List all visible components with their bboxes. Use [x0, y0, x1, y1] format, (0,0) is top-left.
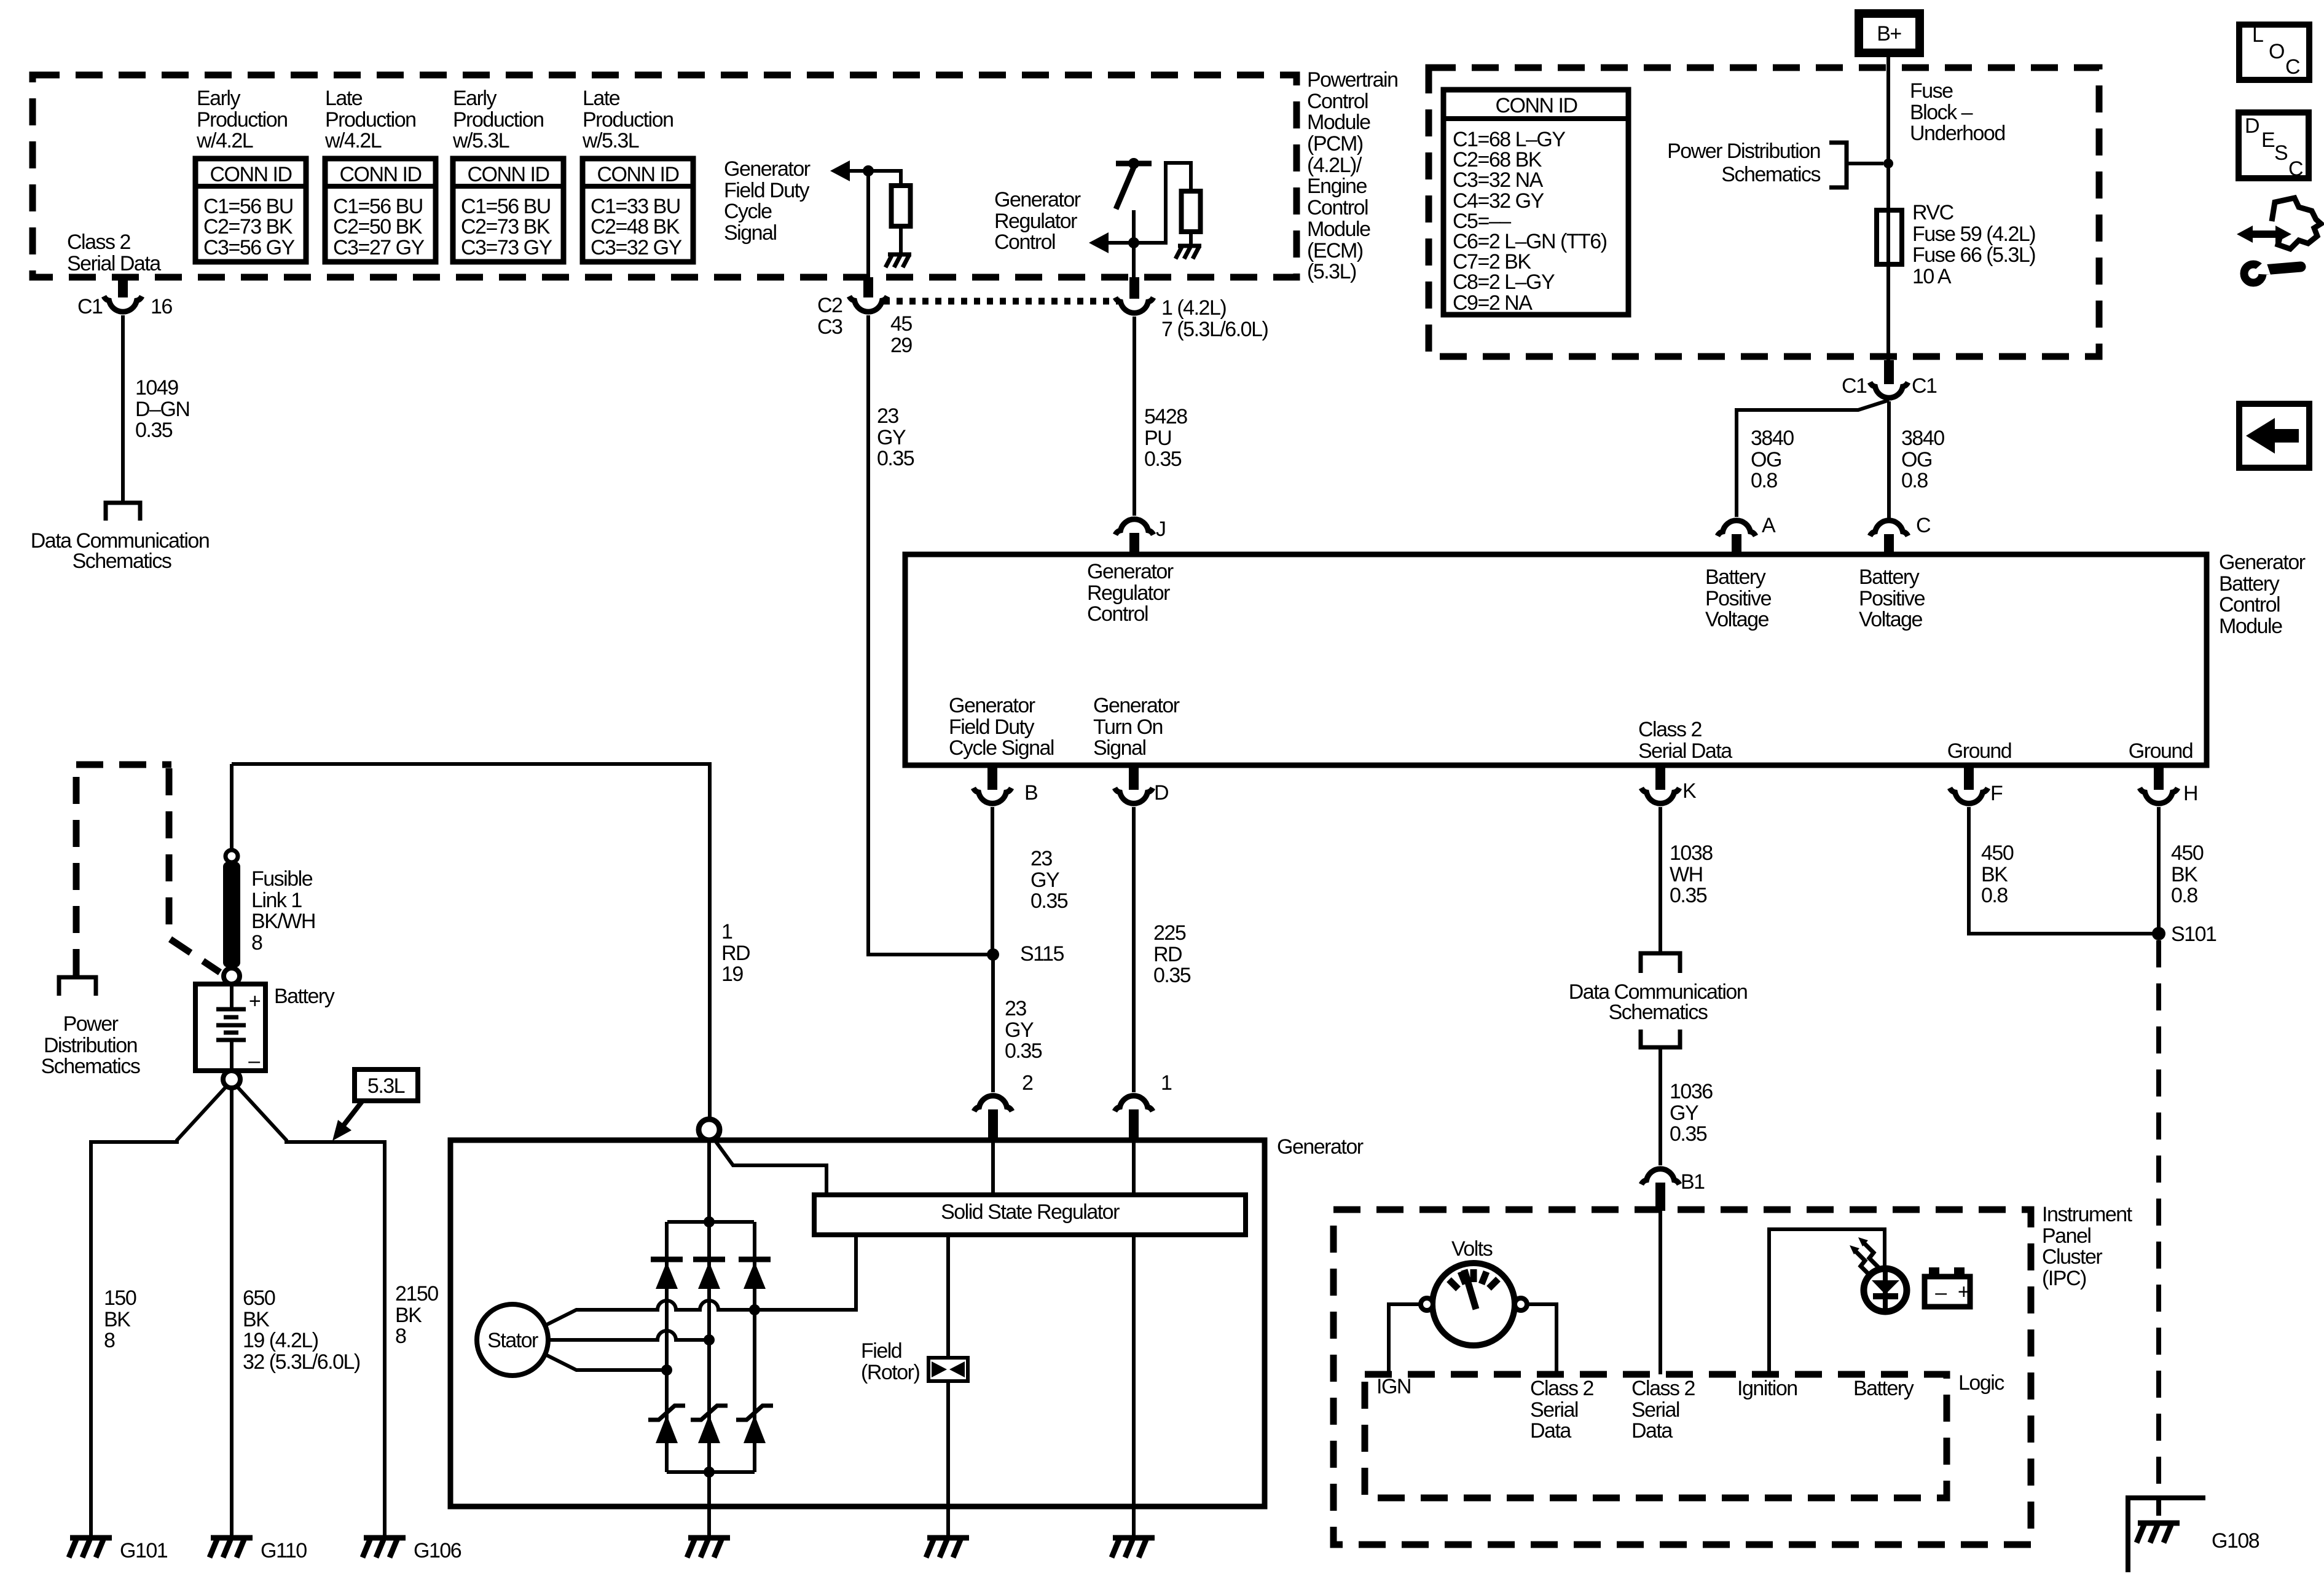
svg-text:0.8: 0.8 [1901, 469, 1928, 492]
svg-text:1 (4.2L): 1 (4.2L) [1161, 296, 1226, 320]
svg-text:C2=48 BK: C2=48 BK [591, 215, 680, 238]
svg-text:Regulator: Regulator [994, 210, 1077, 233]
svg-text:C1: C1 [1912, 374, 1937, 398]
svg-text:Late: Late [583, 87, 620, 110]
svg-text:Underhood: Underhood [1910, 122, 2005, 145]
svg-text:8: 8 [104, 1329, 115, 1352]
svg-text:Regulator: Regulator [1087, 581, 1170, 605]
svg-text:Cluster: Cluster [2042, 1245, 2102, 1269]
svg-text:19 (4.2L): 19 (4.2L) [243, 1329, 318, 1352]
svg-text:45: 45 [890, 312, 912, 336]
svg-text:0.35: 0.35 [877, 447, 914, 470]
svg-text:Module: Module [2219, 615, 2282, 638]
svg-text:Panel: Panel [2042, 1224, 2090, 1248]
svg-text:1036: 1036 [1670, 1080, 1713, 1103]
svg-text:H: H [2183, 782, 2197, 805]
svg-text:450: 450 [1981, 841, 2014, 865]
svg-text:CONN ID: CONN ID [467, 163, 549, 186]
svg-text:Generator: Generator [2219, 551, 2306, 574]
svg-text:0.8: 0.8 [1751, 469, 1777, 492]
svg-text:Production: Production [583, 108, 673, 132]
svg-text:Generator: Generator [1277, 1135, 1364, 1159]
svg-text:Generator: Generator [724, 157, 811, 181]
svg-text:–: – [248, 1049, 260, 1073]
svg-text:Generator: Generator [1087, 560, 1174, 583]
svg-text:Signal: Signal [1093, 736, 1146, 760]
svg-text:+: + [249, 990, 261, 1013]
svg-text:Signal: Signal [724, 221, 777, 245]
svg-text:(4.2L)/: (4.2L)/ [1307, 154, 1362, 177]
svg-text:0.35: 0.35 [135, 419, 173, 442]
svg-text:Battery: Battery [274, 985, 335, 1008]
svg-text:WH: WH [1670, 863, 1703, 886]
svg-text:Cycle Signal: Cycle Signal [949, 736, 1054, 760]
svg-text:BK: BK [2171, 863, 2198, 886]
svg-text:Block –: Block – [1910, 101, 1973, 124]
svg-text:C3=32 GY: C3=32 GY [591, 236, 682, 259]
svg-text:Ground: Ground [2129, 739, 2192, 763]
svg-text:Power Distribution: Power Distribution [1667, 140, 1820, 163]
svg-text:0.35: 0.35 [1005, 1039, 1042, 1063]
svg-text:Control: Control [1307, 90, 1368, 113]
svg-text:Engine: Engine [1307, 175, 1367, 198]
svg-text:B: B [1024, 781, 1037, 805]
svg-text:Module: Module [1307, 111, 1370, 134]
svg-text:S101: S101 [2171, 923, 2216, 946]
svg-text:Voltage: Voltage [1705, 608, 1769, 631]
svg-text:Turn On: Turn On [1093, 715, 1163, 739]
svg-text:C3=27 GY: C3=27 GY [333, 236, 425, 259]
svg-text:0.8: 0.8 [2171, 884, 2197, 907]
svg-text:0.35: 0.35 [1670, 1122, 1707, 1146]
svg-text:w/4.2L: w/4.2L [196, 129, 253, 152]
svg-text:C3=32 NA: C3=32 NA [1453, 168, 1544, 192]
svg-text:Fuse: Fuse [1910, 79, 1953, 103]
svg-text:(Rotor): (Rotor) [861, 1361, 919, 1384]
svg-text:RVC: RVC [1912, 201, 1954, 224]
svg-text:Serial Data: Serial Data [1638, 739, 1732, 763]
svg-text:10 A: 10 A [1912, 265, 1952, 288]
svg-text:Powertrain: Powertrain [1307, 68, 1398, 92]
svg-text:S: S [2274, 141, 2288, 165]
svg-text:1049: 1049 [135, 376, 178, 400]
svg-text:Generator: Generator [949, 694, 1035, 717]
svg-text:Instrument: Instrument [2042, 1203, 2133, 1226]
svg-text:C1: C1 [77, 295, 103, 318]
svg-text:2150: 2150 [395, 1282, 438, 1305]
svg-text:C8=2 L–GY: C8=2 L–GY [1453, 270, 1555, 294]
svg-text:Logic: Logic [1958, 1371, 2004, 1395]
svg-text:Ignition: Ignition [1737, 1377, 1797, 1400]
svg-text:C3: C3 [817, 315, 842, 339]
svg-text:GY: GY [1030, 868, 1059, 892]
svg-text:2: 2 [1022, 1071, 1033, 1095]
svg-text:A: A [1762, 514, 1776, 537]
svg-text:CONN ID: CONN ID [1495, 94, 1577, 117]
svg-text:8: 8 [251, 931, 262, 955]
svg-text:Early: Early [197, 87, 240, 110]
svg-text:5.3L: 5.3L [367, 1074, 405, 1098]
svg-text:Module: Module [1307, 218, 1370, 241]
svg-text:23: 23 [1030, 847, 1052, 870]
svg-text:Production: Production [325, 108, 416, 132]
svg-text:1: 1 [1161, 1071, 1172, 1095]
svg-text:Fusible: Fusible [251, 867, 313, 891]
svg-text:Power: Power [63, 1012, 119, 1036]
svg-text:B1: B1 [1681, 1170, 1705, 1194]
svg-text:CONN ID: CONN ID [339, 163, 421, 186]
svg-text:150: 150 [104, 1286, 136, 1310]
svg-text:Control: Control [994, 230, 1055, 254]
svg-text:Volts: Volts [1451, 1237, 1493, 1261]
svg-text:GY: GY [1005, 1018, 1034, 1042]
svg-text:23: 23 [877, 404, 898, 428]
svg-text:23: 23 [1005, 997, 1026, 1020]
svg-text:Early: Early [453, 87, 497, 110]
svg-text:Schematics: Schematics [1609, 1001, 1708, 1024]
svg-text:G108: G108 [2212, 1529, 2259, 1553]
svg-text:Schematics: Schematics [41, 1055, 140, 1078]
svg-text:L: L [2252, 23, 2263, 47]
svg-text:Positive: Positive [1859, 587, 1925, 610]
svg-text:650: 650 [243, 1286, 275, 1310]
svg-text:C3=56 GY: C3=56 GY [203, 236, 295, 259]
svg-text:G101: G101 [120, 1539, 168, 1562]
svg-text:w/4.2L: w/4.2L [324, 129, 382, 152]
svg-text:C2=73 BK: C2=73 BK [203, 215, 293, 238]
svg-text:Field Duty: Field Duty [724, 179, 810, 202]
svg-text:OG: OG [1751, 448, 1781, 471]
svg-text:GY: GY [1670, 1101, 1698, 1125]
svg-text:D–GN: D–GN [135, 398, 189, 421]
svg-text:Generator: Generator [1093, 694, 1180, 717]
svg-text:Battery: Battery [1853, 1377, 1914, 1400]
svg-text:BK: BK [1981, 863, 2008, 886]
svg-text:Class 2: Class 2 [67, 230, 130, 254]
svg-text:Battery: Battery [2219, 572, 2280, 596]
svg-text:Control: Control [2219, 593, 2280, 616]
svg-text:F: F [1990, 782, 2003, 805]
svg-text:S115: S115 [1020, 942, 1064, 966]
svg-text:B+: B+ [1877, 22, 1901, 45]
svg-text:Cycle: Cycle [724, 200, 772, 223]
svg-text:19: 19 [721, 963, 743, 986]
svg-text:Schematics: Schematics [1721, 163, 1820, 186]
svg-text:Class 2: Class 2 [1530, 1377, 1593, 1400]
svg-text:D: D [2245, 114, 2259, 138]
svg-text:Stator: Stator [487, 1329, 538, 1352]
svg-text:OG: OG [1901, 448, 1932, 471]
svg-text:C: C [1916, 514, 1931, 537]
svg-text:(PCM): (PCM) [1307, 132, 1363, 156]
svg-text:C1: C1 [1842, 374, 1867, 398]
svg-text:Data: Data [1530, 1419, 1571, 1443]
svg-text:3840: 3840 [1901, 427, 1944, 450]
svg-text:RD: RD [1153, 943, 1182, 966]
svg-text:D: D [1154, 781, 1168, 805]
svg-text:5428: 5428 [1144, 405, 1187, 428]
svg-text:Class 2: Class 2 [1631, 1377, 1695, 1400]
svg-text:+: + [1958, 1280, 1969, 1304]
svg-text:Serial Data: Serial Data [67, 252, 161, 275]
svg-text:BK: BK [243, 1308, 270, 1331]
svg-text:Production: Production [453, 108, 544, 132]
svg-text:Fuse 66 (5.3L): Fuse 66 (5.3L) [1912, 243, 2035, 267]
svg-text:450: 450 [2171, 841, 2204, 865]
svg-text:CONN ID: CONN ID [210, 163, 291, 186]
svg-text:3840: 3840 [1751, 427, 1794, 450]
svg-text:Class 2: Class 2 [1638, 718, 1702, 741]
svg-text:Ground: Ground [1947, 739, 2011, 763]
svg-text:0.8: 0.8 [1981, 884, 2008, 907]
svg-text:O: O [2269, 40, 2284, 63]
svg-text:7 (5.3L/6.0L): 7 (5.3L/6.0L) [1161, 318, 1268, 341]
svg-text:(ECM): (ECM) [1307, 239, 1363, 262]
svg-text:Data: Data [1631, 1419, 1673, 1443]
svg-text:(IPC): (IPC) [2042, 1267, 2086, 1290]
svg-text:Late: Late [325, 87, 363, 110]
svg-text:Battery: Battery [1859, 565, 1920, 589]
svg-text:0.35: 0.35 [1144, 447, 1182, 471]
svg-text:0.35: 0.35 [1030, 889, 1068, 913]
svg-text:IGN: IGN [1376, 1375, 1411, 1398]
svg-text:Voltage: Voltage [1859, 608, 1923, 631]
svg-text:8: 8 [395, 1325, 406, 1348]
svg-text:w/5.3L: w/5.3L [452, 129, 509, 152]
svg-text:C9=2 NA: C9=2 NA [1453, 291, 1533, 315]
svg-text:(5.3L): (5.3L) [1307, 260, 1356, 283]
svg-text:Control: Control [1087, 602, 1148, 626]
svg-text:Battery: Battery [1705, 565, 1766, 589]
svg-text:BK/WH: BK/WH [251, 910, 315, 933]
svg-text:BK: BK [104, 1308, 131, 1331]
svg-text:0.35: 0.35 [1153, 964, 1191, 987]
svg-text:CONN ID: CONN ID [597, 163, 678, 186]
svg-text:Serial: Serial [1530, 1398, 1578, 1422]
svg-text:w/5.3L: w/5.3L [582, 129, 639, 152]
svg-text:16: 16 [151, 295, 172, 318]
svg-text:G110: G110 [261, 1539, 307, 1562]
svg-text:Fuse 59 (4.2L): Fuse 59 (4.2L) [1912, 222, 2035, 246]
svg-text:–: – [1935, 1281, 1947, 1304]
svg-text:Field: Field [861, 1339, 901, 1363]
svg-text:C2=50 BK: C2=50 BK [333, 215, 423, 238]
svg-text:1038: 1038 [1670, 841, 1713, 865]
svg-text:Link 1: Link 1 [251, 889, 302, 912]
svg-text:Field Duty: Field Duty [949, 715, 1035, 739]
svg-text:0.35: 0.35 [1670, 884, 1707, 907]
svg-text:Generator: Generator [994, 188, 1081, 211]
svg-text:GY: GY [877, 426, 906, 449]
svg-text:Schematics: Schematics [73, 549, 171, 573]
svg-text:G106: G106 [414, 1539, 461, 1562]
svg-text:E: E [2261, 128, 2275, 152]
svg-text:C: C [2288, 157, 2303, 181]
svg-text:Solid State Regulator: Solid State Regulator [941, 1200, 1120, 1224]
svg-text:32 (5.3L/6.0L): 32 (5.3L/6.0L) [243, 1350, 360, 1374]
svg-text:J: J [1156, 518, 1166, 541]
svg-text:29: 29 [890, 334, 912, 357]
svg-text:C: C [2285, 55, 2300, 79]
svg-text:C2: C2 [817, 294, 842, 317]
svg-text:RD: RD [721, 942, 750, 965]
svg-text:Control: Control [1307, 196, 1368, 219]
svg-text:K: K [1682, 779, 1697, 803]
svg-text:1: 1 [721, 920, 732, 943]
svg-text:Serial: Serial [1631, 1398, 1679, 1422]
svg-text:Distribution: Distribution [44, 1034, 137, 1057]
svg-text:C3=73 GY: C3=73 GY [461, 236, 552, 259]
svg-text:PU: PU [1144, 427, 1171, 450]
svg-text:Positive: Positive [1705, 587, 1772, 610]
svg-text:Production: Production [197, 108, 288, 132]
svg-text:BK: BK [395, 1304, 422, 1327]
svg-text:225: 225 [1153, 921, 1186, 945]
svg-text:C2=73 BK: C2=73 BK [461, 215, 551, 238]
